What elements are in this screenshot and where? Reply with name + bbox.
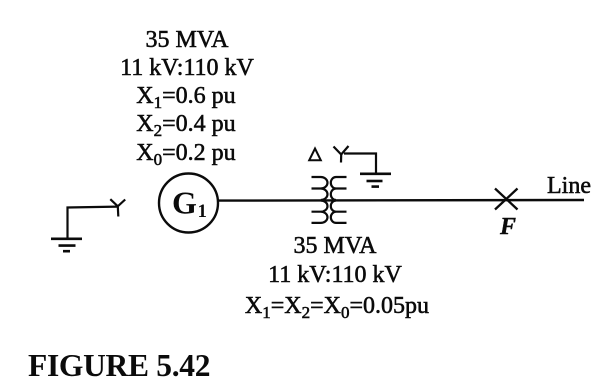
svg-text:FIGURE 5.42: FIGURE 5.42 <box>28 348 210 383</box>
svg-text:Line: Line <box>547 173 591 199</box>
svg-text:X1=0.6 pu: X1=0.6 pu <box>136 83 235 112</box>
ground (generator neutral) <box>51 239 82 251</box>
wire: generator to line end <box>218 199 584 202</box>
svg-text:X1=X2=X0=0.05pu: X1=X2=X0=0.05pu <box>245 293 429 322</box>
svg-text:F: F <box>499 214 516 240</box>
svg-text:11 kV:110 kV: 11 kV:110 kV <box>268 262 402 288</box>
fault mark X <box>495 189 518 210</box>
ground (transformer neutral) <box>360 174 391 187</box>
delta symbol (primary connection) <box>309 149 321 161</box>
svg-text:1: 1 <box>198 201 208 222</box>
wye symbol Y (secondary connection) <box>334 146 349 163</box>
wire: generator neutral branch <box>68 207 118 238</box>
svg-text:11 kV:110 kV: 11 kV:110 kV <box>120 55 254 81</box>
generator ratings label <box>120 27 254 169</box>
transformer ratings label <box>245 233 429 322</box>
generator G1 <box>159 174 218 233</box>
transformer T1 primary winding <box>312 177 328 223</box>
svg-text:G: G <box>172 185 197 221</box>
node: generator wye connection Y <box>110 199 125 216</box>
svg-text:35 MVA: 35 MVA <box>146 27 230 53</box>
svg-text:X0=0.2 pu: X0=0.2 pu <box>136 140 235 169</box>
wire: transformer neutral to ground <box>344 154 376 173</box>
transformer T1 secondary winding <box>331 177 347 223</box>
svg-text:35 MVA: 35 MVA <box>294 233 378 259</box>
svg-text:X2=0.4 pu: X2=0.4 pu <box>136 111 235 140</box>
